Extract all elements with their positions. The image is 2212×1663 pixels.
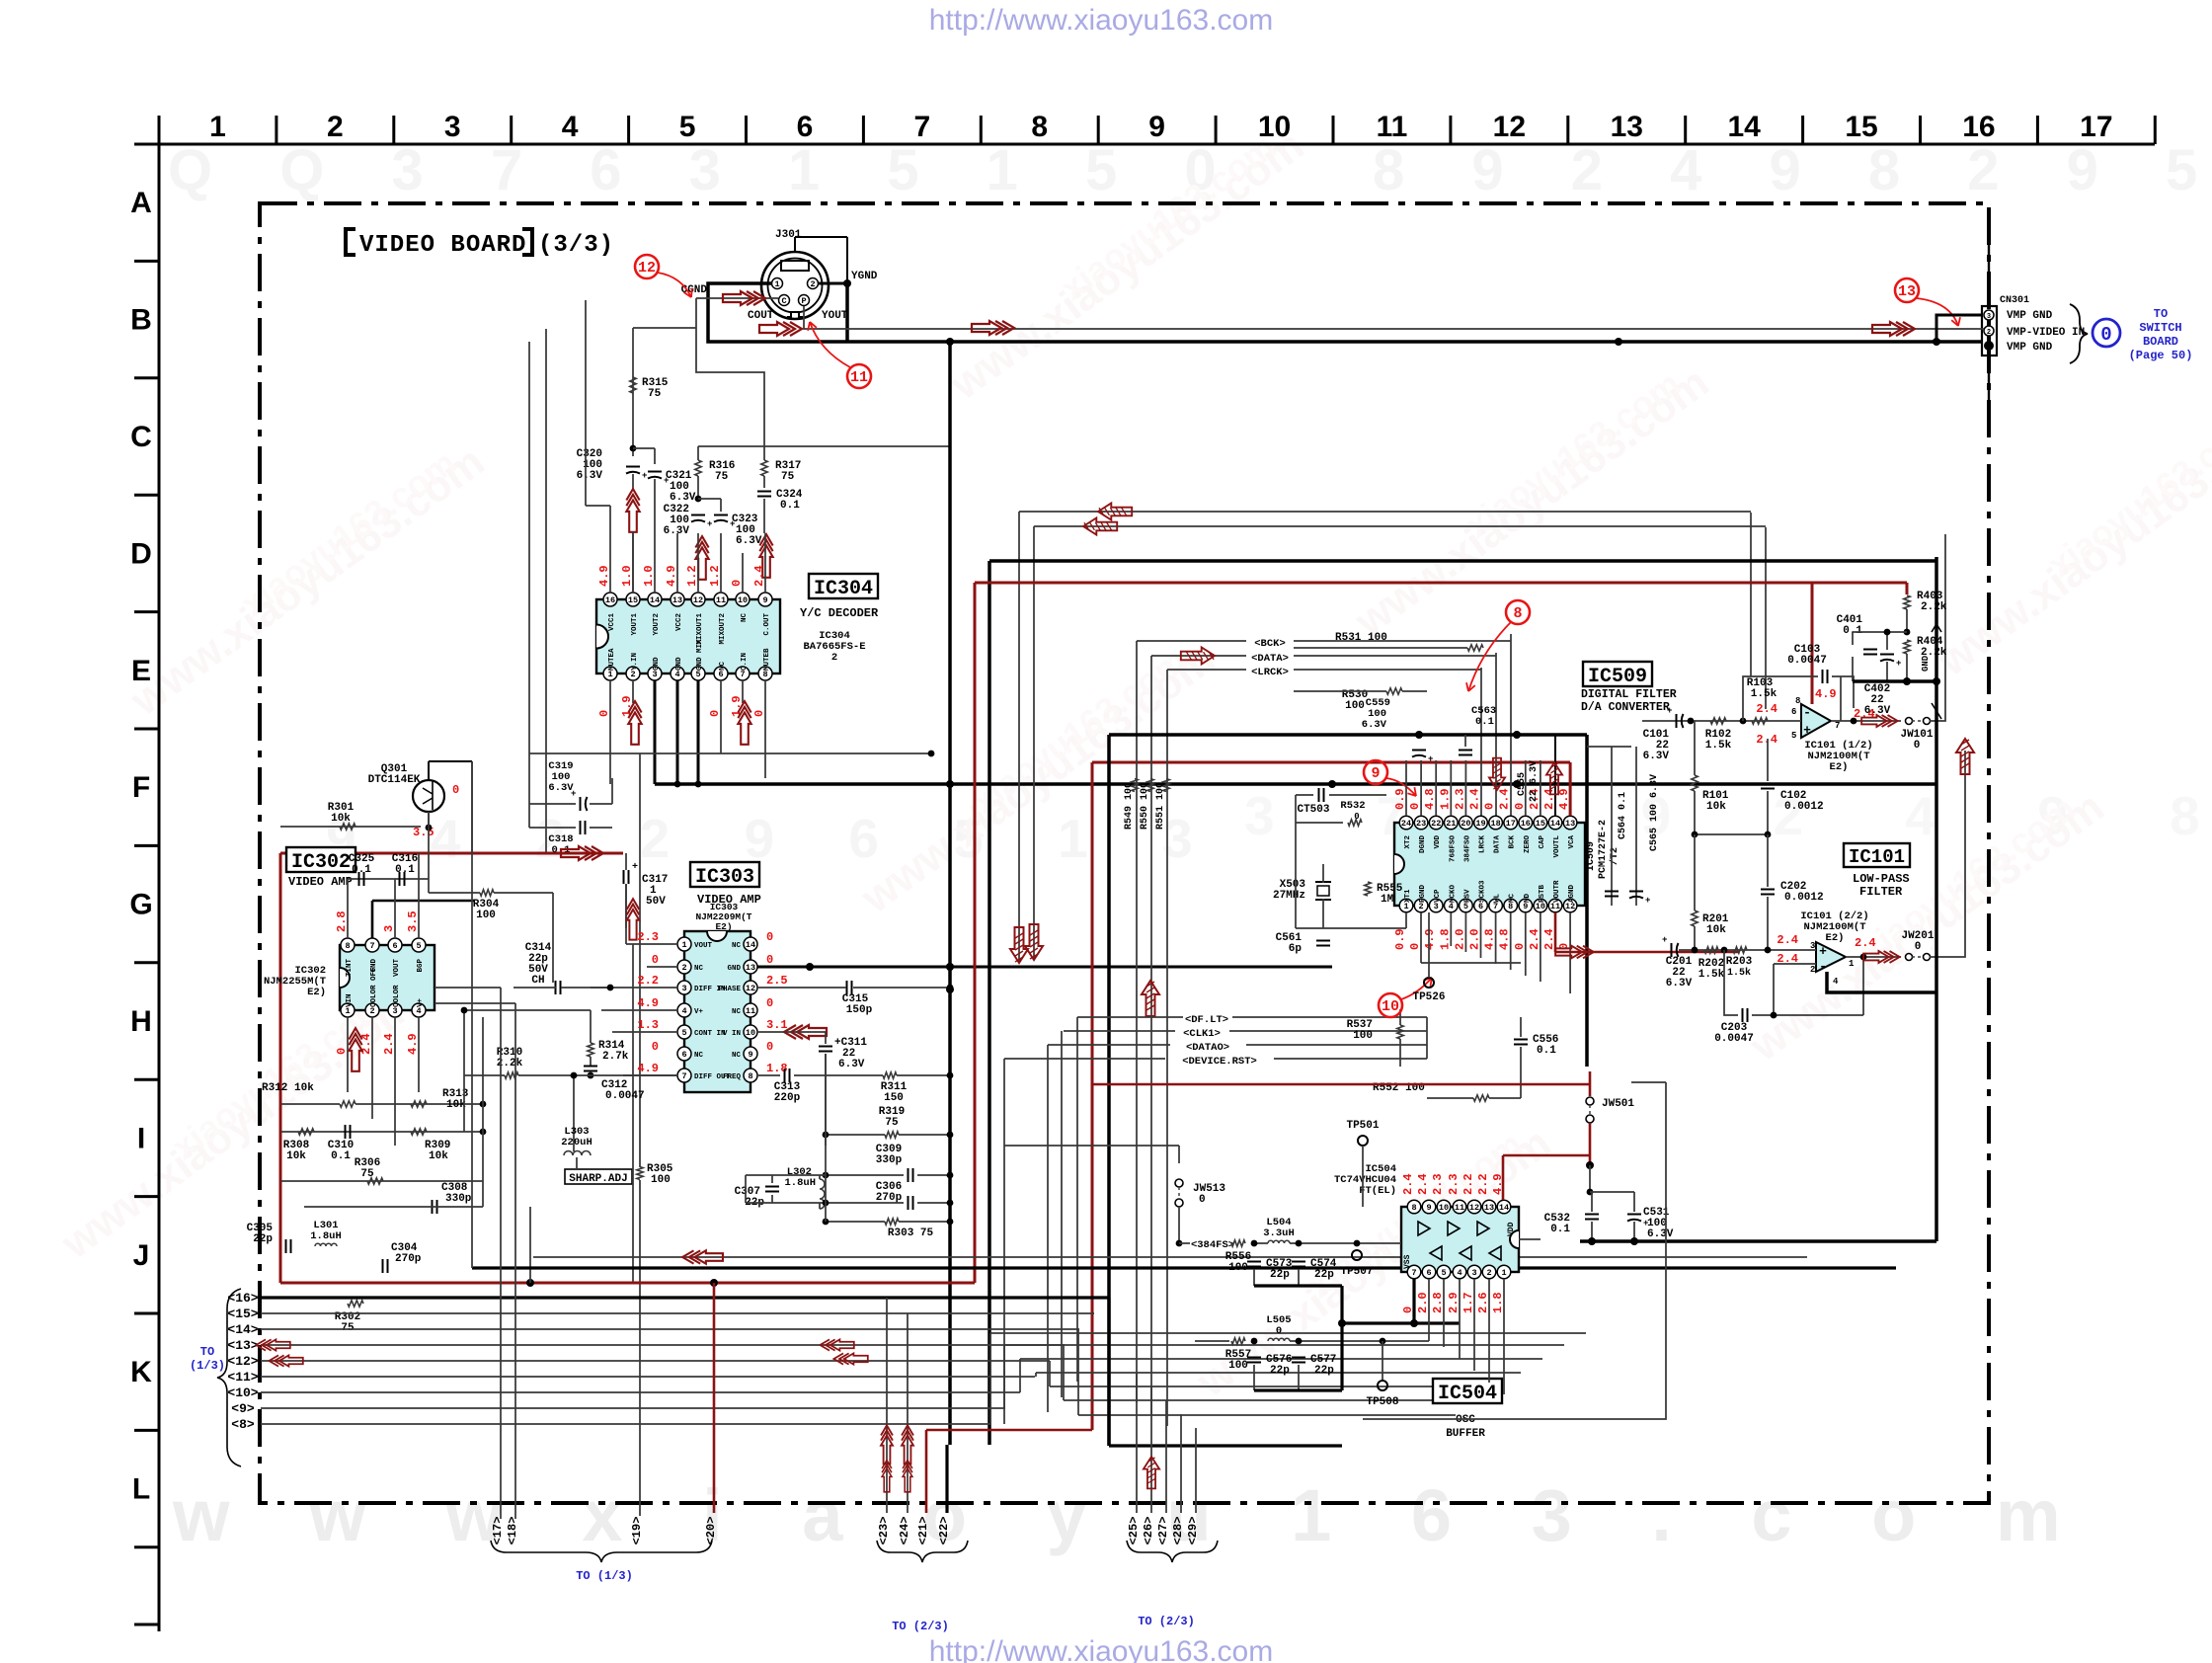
svg-text:+: + [1896, 659, 1901, 669]
svg-text:IC302: IC302 [291, 851, 351, 874]
svg-text:0.1: 0.1 [331, 1150, 351, 1162]
svg-text:1.5k: 1.5k [1727, 967, 1751, 979]
svg-text:10k: 10k [1706, 924, 1726, 936]
svg-text:SWITCH: SWITCH [2139, 321, 2181, 335]
svg-text:TO (1/3): TO (1/3) [576, 1569, 633, 1583]
svg-text:<18>: <18> [506, 1517, 519, 1545]
svg-text:2.6: 2.6 [1476, 1292, 1490, 1313]
svg-text:6p: 6p [1289, 943, 1303, 955]
svg-text:13: 13 [1898, 283, 1916, 300]
svg-text:768FSO: 768FSO [1449, 835, 1457, 863]
svg-text:0.9: 0.9 [1393, 788, 1407, 810]
svg-text:NC: NC [732, 942, 742, 950]
svg-text:C: C [130, 421, 152, 453]
svg-text:6.3V: 6.3V [1362, 719, 1387, 731]
svg-text:8 9 2 4 9 8 2 9 5: 8 9 2 4 9 8 2 9 5 [1373, 138, 2212, 202]
svg-text:1: 1 [209, 111, 226, 143]
svg-text:TO: TO [200, 1345, 214, 1359]
svg-text:FILTER: FILTER [1859, 885, 1903, 899]
svg-text:4.8: 4.8 [1483, 928, 1497, 950]
svg-text:ZERO: ZERO [1524, 835, 1532, 854]
svg-text:<CLK1>: <CLK1> [1183, 1028, 1221, 1040]
svg-text:0: 0 [452, 783, 459, 797]
svg-text:<29>: <29> [1186, 1517, 1200, 1545]
svg-text:3: 3 [1987, 313, 1991, 321]
svg-text:R550 100: R550 100 [1140, 782, 1150, 830]
svg-text:NC: NC [732, 1008, 742, 1016]
svg-text:TINT: TINT [346, 959, 354, 978]
svg-text:384FSO: 384FSO [1463, 835, 1471, 863]
svg-text:IC304: IC304 [814, 578, 873, 600]
svg-text:0: 0 [1915, 941, 1922, 953]
svg-text:2.3: 2.3 [637, 930, 659, 944]
svg-text:2.4: 2.4 [1401, 1173, 1415, 1195]
svg-text:11: 11 [746, 1006, 755, 1016]
svg-text:2: 2 [1810, 965, 1815, 975]
svg-text:VMP GND: VMP GND [2007, 310, 2053, 322]
svg-text:10: 10 [738, 595, 748, 605]
svg-text:6: 6 [1426, 1268, 1431, 1278]
svg-text:1.8: 1.8 [1491, 1292, 1505, 1313]
svg-text:2.4: 2.4 [1498, 788, 1512, 810]
svg-text:R549 100: R549 100 [1124, 782, 1135, 830]
svg-text:COLOR: COLOR [393, 985, 401, 1007]
svg-text:MUTEA: MUTEA [608, 648, 616, 671]
svg-text:22p: 22p [253, 1233, 273, 1245]
svg-text:2.4: 2.4 [1416, 1173, 1430, 1195]
svg-text:0: 0 [766, 930, 773, 944]
svg-text:0.1: 0.1 [352, 864, 371, 876]
svg-text:0: 0 [1276, 1325, 1282, 1337]
svg-text:2: 2 [810, 279, 815, 289]
svg-text:8: 8 [748, 1071, 752, 1081]
svg-text:TO (2/3): TO (2/3) [1138, 1615, 1195, 1628]
svg-text:0.0012: 0.0012 [1784, 801, 1824, 813]
svg-text:220p: 220p [774, 1092, 801, 1104]
svg-text:6.3V: 6.3V [1647, 1228, 1674, 1240]
svg-text:<19>: <19> [630, 1517, 644, 1545]
svg-text:R303 75: R303 75 [888, 1227, 934, 1239]
svg-text:Y/C DECODER: Y/C DECODER [800, 606, 879, 620]
svg-text:10k: 10k [331, 813, 351, 825]
svg-text:22p: 22p [1314, 1269, 1334, 1281]
svg-text:C: C [781, 296, 786, 306]
svg-text:1.0: 1.0 [642, 565, 656, 587]
svg-text:19: 19 [1475, 819, 1485, 829]
svg-text:7: 7 [1411, 1268, 1416, 1278]
svg-text:-: - [1819, 959, 1827, 974]
svg-text:E2): E2) [1830, 761, 1849, 773]
svg-text:6.3V: 6.3V [1864, 705, 1891, 717]
svg-text:5: 5 [1791, 731, 1796, 741]
svg-text:16: 16 [605, 595, 615, 605]
svg-text:J: J [133, 1239, 150, 1272]
svg-text:6.3V: 6.3V [670, 492, 696, 504]
svg-text:0: 0 [1483, 803, 1497, 810]
svg-text:100: 100 [476, 910, 496, 921]
svg-text:1.2: 1.2 [685, 565, 699, 587]
svg-text:2.2: 2.2 [637, 974, 659, 988]
svg-text:12: 12 [746, 984, 755, 993]
svg-text:1.5k: 1.5k [1705, 740, 1732, 752]
svg-text:BCK: BCK [1509, 835, 1517, 849]
svg-text:Y.IN: Y.IN [631, 653, 639, 671]
svg-text:TP526: TP526 [1412, 991, 1445, 1003]
svg-text:K: K [130, 1356, 152, 1388]
svg-text:150: 150 [884, 1092, 904, 1104]
svg-text:2.4: 2.4 [1756, 702, 1777, 716]
svg-text:6: 6 [1791, 707, 1796, 717]
svg-text:MIXOUT2: MIXOUT2 [719, 613, 727, 645]
svg-text:0: 0 [766, 953, 773, 967]
svg-text:6.3V: 6.3V [577, 470, 603, 482]
svg-text:9: 9 [762, 595, 767, 605]
svg-text:Q Q 3 7 6 3 1 5 1 5 0: Q Q 3 7 6 3 1 5 1 5 0 [168, 138, 1242, 202]
svg-text:DTC114EK: DTC114EK [368, 774, 421, 786]
svg-text:FREQ: FREQ [723, 1073, 742, 1081]
svg-text:0.1: 0.1 [780, 500, 800, 512]
svg-text:B: B [130, 304, 152, 337]
svg-text:G: G [129, 889, 152, 921]
svg-text:1.8uH: 1.8uH [784, 1177, 816, 1189]
svg-text:C565 100 6.3V: C565 100 6.3V [1649, 774, 1660, 851]
svg-text:0: 0 [1408, 803, 1422, 810]
svg-text:6: 6 [392, 941, 397, 951]
svg-text:0: 0 [1914, 740, 1921, 752]
svg-text:11: 11 [716, 595, 726, 605]
svg-text:D/A CONVERTER: D/A CONVERTER [1581, 701, 1670, 714]
svg-text:8: 8 [1031, 111, 1048, 143]
svg-text:9: 9 [1148, 111, 1165, 143]
svg-text:PGND: PGND [1419, 884, 1427, 903]
svg-text:1.5k: 1.5k [1698, 969, 1725, 981]
svg-text:12: 12 [1469, 1203, 1479, 1213]
svg-text:2.4: 2.4 [1855, 936, 1876, 950]
svg-text:YOUT1: YOUT1 [631, 613, 639, 636]
svg-text:14: 14 [650, 595, 660, 605]
svg-text:<9>: <9> [231, 1401, 255, 1416]
svg-text:6: 6 [681, 1050, 686, 1060]
svg-text:<24>: <24> [898, 1517, 911, 1545]
svg-text:10: 10 [746, 1028, 755, 1038]
svg-text:23: 23 [1416, 819, 1426, 829]
svg-text:270p: 270p [395, 1253, 422, 1265]
svg-text:+: + [1667, 706, 1672, 716]
svg-text:<23>: <23> [877, 1517, 891, 1545]
svg-text:1.0: 1.0 [620, 565, 634, 587]
svg-text:10: 10 [1382, 998, 1399, 1015]
svg-text:1: 1 [774, 279, 779, 289]
svg-text:IC509: IC509 [1588, 666, 1647, 688]
svg-text:PCM1727E-2: PCM1727E-2 [1598, 820, 1609, 879]
svg-text:DIGITAL FILTER: DIGITAL FILTER [1581, 688, 1677, 701]
svg-text:9 4 2 2 9 6 5 1 3: 9 4 2 2 9 6 5 1 3 [326, 808, 1223, 869]
svg-text:J301: J301 [775, 229, 802, 241]
svg-text:<12>: <12> [227, 1354, 258, 1369]
svg-text:COLOR OFF: COLOR OFF [370, 967, 378, 1007]
svg-text:(3/3): (3/3) [538, 232, 614, 259]
svg-text:75: 75 [648, 388, 662, 400]
svg-text:+: + [632, 862, 638, 873]
svg-text:VIN: VIN [346, 993, 354, 1007]
svg-text:H: H [130, 1005, 152, 1038]
svg-text:100: 100 [1345, 700, 1365, 712]
svg-text:8: 8 [1513, 605, 1522, 622]
svg-text:1.5k: 1.5k [1751, 688, 1777, 700]
svg-text:JW513: JW513 [1193, 1183, 1225, 1195]
svg-text:22p: 22p [1314, 1365, 1334, 1377]
svg-text:VOUT: VOUT [694, 942, 713, 950]
svg-text:6.3V: 6.3V [838, 1059, 865, 1070]
svg-text:2.4: 2.4 [752, 565, 766, 587]
svg-text:TP507: TP507 [1340, 1266, 1373, 1278]
svg-text:1.3: 1.3 [637, 1018, 659, 1032]
svg-text:COUT: COUT [748, 310, 774, 322]
svg-text:V+: V+ [694, 1008, 704, 1016]
svg-text:VCC2: VCC2 [675, 613, 683, 632]
svg-text:7: 7 [369, 941, 374, 951]
svg-text:2.0: 2.0 [1416, 1292, 1430, 1313]
svg-text:0: 0 [766, 1040, 773, 1054]
svg-text:3.3uH: 3.3uH [1263, 1227, 1295, 1239]
svg-text:220uH: 220uH [561, 1137, 592, 1148]
svg-text:GND: GND [675, 657, 683, 671]
svg-text:C.IN: C.IN [741, 653, 749, 671]
svg-text:R203: R203 [1726, 956, 1753, 968]
svg-text:<14>: <14> [227, 1322, 258, 1337]
svg-text:-: - [1803, 705, 1811, 720]
svg-text:2.4: 2.4 [1542, 788, 1556, 810]
svg-text:CN301: CN301 [2000, 295, 2029, 306]
svg-text:XT2: XT2 [1404, 835, 1412, 849]
svg-text:CONT IN: CONT IN [694, 1030, 726, 1038]
svg-text:<384FS>: <384FS> [1191, 1239, 1234, 1251]
svg-text:75: 75 [781, 471, 795, 483]
svg-text:<DATA>: <DATA> [1251, 653, 1289, 665]
svg-text:0.1: 0.1 [1475, 716, 1494, 728]
svg-text:<28>: <28> [1171, 1517, 1185, 1545]
svg-text:<DF.LT>: <DF.LT> [1185, 1014, 1228, 1026]
svg-text:<15>: <15> [227, 1307, 258, 1321]
svg-text:C555: C555 [1517, 772, 1528, 796]
svg-text:22: 22 [1431, 819, 1441, 829]
svg-text:FT(EL): FT(EL) [1359, 1185, 1396, 1197]
svg-text:14: 14 [746, 940, 755, 950]
svg-text:22p: 22p [1270, 1269, 1290, 1281]
svg-text:MUTEB: MUTEB [763, 648, 771, 671]
svg-text:11: 11 [1455, 1203, 1464, 1213]
svg-text:1.8uH: 1.8uH [310, 1230, 342, 1242]
svg-text:0.1: 0.1 [1550, 1224, 1570, 1235]
svg-text:http://www.xiaoyu163.com: http://www.xiaoyu163.com [929, 1635, 1274, 1663]
svg-text:2.0: 2.0 [1468, 928, 1482, 950]
svg-text:1M: 1M [1381, 894, 1394, 906]
svg-text:OSC: OSC [1456, 1414, 1475, 1426]
svg-text:BOARD: BOARD [2143, 335, 2178, 349]
svg-text:R312 10k: R312 10k [262, 1082, 314, 1094]
svg-text:TP508: TP508 [1366, 1396, 1398, 1408]
svg-text:1: 1 [681, 940, 686, 950]
svg-text:5: 5 [681, 1028, 686, 1038]
svg-text:100: 100 [651, 1174, 671, 1186]
svg-text:YOUT2: YOUT2 [653, 613, 661, 636]
svg-text:YOUT: YOUT [822, 310, 848, 322]
svg-text:0: 0 [652, 953, 659, 967]
svg-text:1: 1 [1849, 959, 1855, 969]
svg-text:75: 75 [341, 1322, 355, 1334]
svg-text:11: 11 [850, 369, 868, 386]
svg-text:I: I [137, 1122, 145, 1154]
svg-text:6.3V: 6.3V [1643, 751, 1670, 762]
svg-text:MCKO: MCKO [1449, 884, 1457, 903]
svg-text:2.4: 2.4 [1468, 788, 1482, 810]
svg-text:9: 9 [1371, 765, 1380, 782]
svg-text:2.8: 2.8 [1431, 1292, 1445, 1313]
svg-text:0.9: 0.9 [1393, 928, 1407, 950]
svg-text:2.4: 2.4 [1528, 928, 1541, 950]
svg-text:16: 16 [1962, 111, 1995, 143]
svg-text:GND: GND [653, 657, 661, 671]
svg-text:2.3: 2.3 [1447, 1173, 1461, 1195]
svg-text:2.2: 2.2 [1476, 1173, 1490, 1195]
svg-text:75: 75 [360, 1168, 374, 1180]
svg-text:20: 20 [1461, 819, 1470, 829]
svg-text:50V: 50V [646, 896, 666, 908]
svg-text:0.1: 0.1 [1537, 1045, 1556, 1057]
svg-text:4.9: 4.9 [1815, 687, 1837, 701]
svg-text:330p: 330p [876, 1154, 903, 1166]
svg-text:E2): E2) [307, 987, 326, 998]
svg-text:13: 13 [746, 963, 755, 973]
svg-text:V IN: V IN [723, 1030, 741, 1038]
svg-text:+: + [707, 519, 712, 529]
svg-text:JW501: JW501 [1602, 1098, 1634, 1110]
svg-text:10k: 10k [286, 1150, 306, 1162]
svg-text:SHARP.ADJ: SHARP.ADJ [569, 1173, 627, 1185]
svg-text:5: 5 [679, 111, 696, 143]
svg-text:DATA: DATA [1494, 835, 1502, 854]
svg-text:8: 8 [1795, 696, 1800, 706]
svg-text:15: 15 [1536, 819, 1545, 829]
svg-text:<27>: <27> [1156, 1517, 1170, 1545]
svg-text:2.3: 2.3 [1453, 788, 1466, 810]
svg-text:VOUT: VOUT [393, 959, 401, 978]
svg-text:VOUTR: VOUTR [1553, 880, 1561, 903]
svg-text:IC303: IC303 [695, 866, 754, 889]
svg-text:4: 4 [1833, 977, 1839, 987]
svg-text:VIDEO AMP: VIDEO AMP [288, 875, 353, 889]
svg-text:+: + [1819, 944, 1827, 959]
svg-text:VMP GND: VMP GND [2007, 342, 2053, 354]
svg-text:GND: GND [727, 965, 741, 973]
svg-text:A: A [130, 187, 152, 219]
svg-text:PHASE: PHASE [718, 986, 741, 993]
svg-text:NC: NC [732, 1052, 742, 1060]
svg-text:BGP: BGP [417, 959, 425, 973]
svg-text:2.4: 2.4 [382, 1033, 396, 1055]
svg-text:<21>: <21> [916, 1517, 930, 1545]
svg-text:MC: MC [1509, 893, 1517, 903]
svg-text:4.9: 4.9 [1423, 928, 1437, 950]
svg-text:(1/3): (1/3) [190, 1359, 225, 1373]
svg-text:0.0047: 0.0047 [605, 1090, 645, 1102]
svg-text:VCA: VCA [1568, 835, 1576, 849]
svg-text:24: 24 [1401, 819, 1411, 829]
svg-text:<BCK>: <BCK> [1254, 638, 1286, 650]
svg-text:2: 2 [1486, 1268, 1491, 1278]
svg-text:D: D [130, 537, 152, 570]
svg-text:21: 21 [1446, 819, 1456, 829]
svg-text:4.9: 4.9 [597, 565, 611, 587]
svg-text:DGND: DGND [1419, 835, 1427, 854]
svg-text:NC: NC [719, 661, 727, 671]
svg-text:0: 0 [708, 710, 722, 717]
svg-text:C.OUT: C.OUT [763, 613, 771, 636]
svg-text:E2): E2) [715, 921, 732, 932]
svg-text:0: 0 [730, 580, 744, 587]
svg-text:0.0047: 0.0047 [1714, 1033, 1754, 1045]
svg-text:0: 0 [335, 1048, 349, 1055]
svg-text:2.7k: 2.7k [602, 1051, 629, 1063]
svg-text:2.0: 2.0 [1453, 928, 1466, 950]
svg-text:R531 100: R531 100 [1335, 632, 1387, 644]
svg-text:CH: CH [531, 975, 544, 987]
svg-text:75: 75 [885, 1117, 899, 1129]
svg-text:SCKO3: SCKO3 [1479, 880, 1487, 903]
svg-text:P: P [801, 296, 806, 306]
svg-text:VIDEO BOARD: VIDEO BOARD [359, 232, 526, 259]
svg-text:5: 5 [1441, 1268, 1446, 1278]
svg-text:7: 7 [681, 1071, 686, 1081]
svg-text:(Page 50): (Page 50) [2129, 349, 2193, 362]
svg-text:2: 2 [831, 652, 837, 664]
svg-text:1.8: 1.8 [1438, 928, 1452, 950]
svg-text:GND MIX: GND MIX [696, 639, 704, 671]
svg-text:4.9: 4.9 [406, 1033, 420, 1055]
svg-text:<22>: <22> [937, 1517, 951, 1545]
svg-text:2.4: 2.4 [1777, 933, 1798, 947]
svg-text:+: + [642, 471, 647, 481]
svg-text:<17>: <17> [491, 1517, 505, 1545]
svg-text:7: 7 [1835, 721, 1840, 731]
svg-text:7: 7 [914, 111, 931, 143]
svg-text:13: 13 [1565, 819, 1575, 829]
svg-text:4.9: 4.9 [637, 1062, 659, 1075]
svg-text:IC504: IC504 [1438, 1383, 1497, 1405]
svg-text:YGND: YGND [851, 271, 878, 282]
svg-text:0: 0 [597, 710, 611, 717]
svg-text:VDD: VDD [1434, 835, 1442, 849]
svg-text:15: 15 [628, 595, 638, 605]
svg-text:2: 2 [681, 963, 686, 973]
svg-text:<8>: <8> [231, 1417, 255, 1432]
svg-text:0: 0 [1513, 803, 1527, 810]
svg-text:27MHz: 27MHz [1273, 890, 1305, 902]
svg-text:6: 6 [797, 111, 814, 143]
svg-text:0.0012: 0.0012 [1784, 892, 1824, 904]
svg-text:0: 0 [1199, 1194, 1206, 1206]
svg-text:12: 12 [1493, 111, 1526, 143]
svg-text:<DEVICE.RST>: <DEVICE.RST> [1182, 1056, 1257, 1068]
svg-text:BUFFER: BUFFER [1446, 1428, 1485, 1440]
svg-text:<13>: <13> [227, 1338, 258, 1353]
svg-text:<DATAO>: <DATAO> [1186, 1042, 1229, 1054]
svg-text:R532: R532 [1340, 800, 1365, 812]
svg-text:+: + [1662, 935, 1667, 945]
svg-text:4: 4 [562, 111, 579, 143]
svg-text:+: + [1428, 754, 1433, 764]
svg-text:15: 15 [1845, 111, 1877, 143]
